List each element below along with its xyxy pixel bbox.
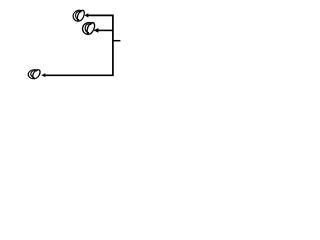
node B (middle roll symbol) [82,21,96,36]
arrowhead into node A (top) [84,13,88,17]
wire: top horizontal + vertical bus + bottom horizontal [45,15,113,75]
wire: middle horizontal from vertical bus to node B [98,29,113,31]
arrowhead into node C (bottom) [41,73,45,77]
node C (bottom roll symbol) [28,68,42,79]
node A (top roll symbol) [73,9,86,23]
arrowhead into node B [94,28,99,33]
wire: stub tick to the right of vertical bus [113,40,121,42]
